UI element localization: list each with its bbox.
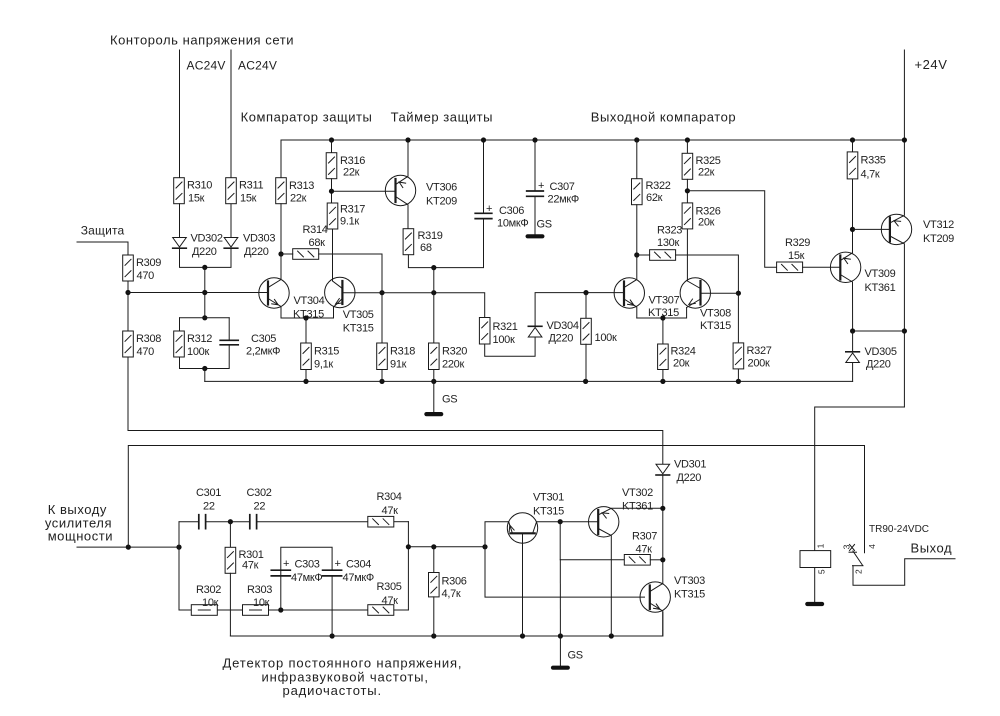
ground GS C307	[526, 234, 545, 238]
svg-text:Компаратор защиты: Компаратор защиты	[241, 110, 373, 125]
wire: R306 top lead	[433, 547, 435, 573]
wire: C303 bottom lead	[280, 576, 282, 610]
svg-text:1: 1	[816, 543, 826, 548]
wire: R325 top lead	[686, 140, 688, 153]
wire: R308 down to DC-detector line	[128, 357, 663, 464]
wire: node to rail segment	[559, 560, 561, 636]
wire: C306 top to bus	[483, 140, 485, 213]
svg-text:10мкФ: 10мкФ	[497, 218, 528, 230]
svg-text:KT315: KT315	[533, 506, 564, 518]
svg-text:R321: R321	[493, 321, 518, 333]
svg-text:R320: R320	[442, 346, 467, 358]
transistor VT305 KT315	[325, 277, 355, 307]
capacitor C303	[271, 570, 290, 576]
svg-text:R324: R324	[671, 346, 696, 358]
wire: R335 bottom to VT312 base node	[852, 179, 854, 229]
wire: R301 top lead	[229, 522, 231, 548]
junction VT312 base node	[850, 227, 855, 232]
svg-text:Д220: Д220	[244, 246, 269, 258]
svg-text:R312: R312	[187, 333, 212, 345]
svg-text:KT315: KT315	[674, 589, 705, 601]
svg-text:R322: R322	[646, 180, 671, 192]
wire: R322 bottom to node	[636, 205, 638, 255]
svg-text:20к: 20к	[673, 358, 690, 370]
wire: Защита lead	[77, 242, 128, 255]
wire: R325-R326 node	[686, 179, 688, 203]
wire: VT305 base from R317	[333, 230, 343, 289]
svg-text:R308: R308	[136, 333, 161, 345]
svg-text:VD302: VD302	[191, 232, 223, 244]
wire: R324 top lead	[662, 318, 664, 344]
junction R306 rail	[431, 633, 436, 638]
transistor VT304 KT315	[259, 278, 289, 308]
wire: R335 top lead	[852, 140, 854, 152]
resistor R310	[174, 178, 185, 204]
junction emitters R315	[303, 315, 308, 320]
capacitor C305	[220, 340, 238, 345]
resistor R335	[847, 152, 858, 179]
transistor VT302 KT361	[589, 507, 619, 537]
wire: VT301 emitter slant	[509, 522, 513, 533]
junction bus R322	[634, 137, 639, 142]
wire: R315 top lead	[305, 318, 307, 343]
svg-text:R309: R309	[136, 257, 161, 269]
wire: VT302 collector down to rail	[598, 529, 611, 637]
svg-text:VD303: VD303	[243, 232, 275, 244]
resistor 100k	[581, 318, 592, 344]
wire: R305 right lead	[394, 609, 408, 611]
wire: 100k bottom lead	[585, 344, 587, 381]
arrow VT312 emitter	[893, 219, 901, 226]
arrow VT307 emitter	[628, 300, 636, 308]
junction input column	[176, 545, 181, 550]
resistor R319	[403, 229, 414, 255]
svg-text:R325: R325	[696, 155, 721, 167]
svg-text:47к: 47к	[382, 505, 399, 517]
wire: C304 bottom to rail	[331, 576, 333, 636]
svg-text:R307: R307	[632, 531, 657, 543]
svg-text:22: 22	[254, 501, 266, 513]
wire: VT303 collector	[650, 584, 663, 592]
capacitor C307	[527, 191, 544, 196]
svg-text:47к: 47к	[242, 560, 259, 572]
resistor R317	[327, 203, 338, 229]
wire: VT312 collector down	[890, 236, 905, 407]
wire: R329 to VT309 base	[803, 266, 841, 268]
wire: R314 right lead to R318 column	[319, 254, 382, 343]
resistor R322	[632, 179, 643, 205]
svg-text:VT312: VT312	[923, 219, 954, 231]
junction bus C307	[532, 137, 537, 142]
svg-text:R314: R314	[303, 224, 328, 236]
transistor VT309 KT361	[830, 252, 860, 282]
wire: R302-R303 link	[218, 609, 243, 611]
svg-text:R305: R305	[377, 581, 402, 593]
svg-text:R311: R311	[239, 180, 263, 192]
svg-text:10к: 10к	[253, 597, 270, 609]
junction VT301 emitter column	[482, 544, 487, 549]
svg-text:2: 2	[853, 569, 863, 574]
transistor VT308 KT315	[680, 278, 710, 308]
svg-text:C307: C307	[550, 181, 575, 193]
svg-text:R327: R327	[747, 345, 772, 357]
wire: VT309 collector down	[840, 275, 852, 332]
wire: C303-C304 top link	[281, 547, 332, 576]
svg-text:R313: R313	[289, 180, 314, 192]
svg-text:15к: 15к	[240, 193, 257, 205]
wire: VT308 emitter	[687, 299, 701, 308]
junction R306 top	[431, 544, 436, 549]
svg-text:C305: C305	[251, 333, 276, 345]
svg-text:VT301: VT301	[533, 492, 564, 504]
wire: R304 right lead	[394, 521, 408, 523]
arrow VT306 emitter	[398, 180, 406, 188]
junction relay feed branch	[126, 545, 131, 550]
wire: R319 bottom to C306 column	[408, 219, 483, 268]
wire: VT307 collector	[624, 255, 637, 288]
svg-text:Контороль напряжения сети: Контороль напряжения сети	[110, 33, 294, 48]
resistor R327	[733, 343, 744, 369]
svg-text:GS: GS	[442, 394, 457, 406]
wire: AC24V feed 1	[179, 50, 181, 178]
svg-text:470: 470	[137, 270, 155, 282]
wire: VT304 base line	[128, 292, 268, 294]
resistor R325	[682, 153, 693, 179]
arrow VT304 emitter	[272, 299, 280, 307]
wire: VD305 cathode stub	[852, 331, 854, 352]
resistor R315	[301, 343, 312, 370]
svg-text:C304: C304	[346, 559, 371, 571]
svg-text:47к: 47к	[382, 595, 399, 607]
resistor R316	[326, 153, 337, 179]
svg-text:KT361: KT361	[865, 282, 896, 294]
wire: R313 to collector node	[280, 204, 282, 254]
wire: VT306 collector to R319	[396, 197, 409, 229]
wire: rail ground stub low	[559, 636, 561, 666]
junction VT302 collector rail	[609, 633, 614, 638]
wire: C301-C302 link	[206, 521, 250, 523]
resistor R329	[777, 262, 803, 273]
wire: 100k top lead	[585, 293, 587, 319]
wire: R312/C305 top link	[180, 317, 230, 319]
wire: VT312 base line	[853, 228, 890, 230]
svg-text:R323: R323	[657, 225, 682, 237]
wire: contact to output	[853, 559, 955, 586]
wire: VD302 cathode down	[180, 248, 232, 267]
wire: VT306 emitter to bus	[396, 140, 409, 185]
svg-text:VT306: VT306	[426, 182, 457, 194]
svg-text:62к: 62к	[646, 192, 663, 204]
svg-text:TR90-24VDC: TR90-24VDC	[869, 524, 929, 535]
resistor R305	[368, 605, 394, 616]
resistor R313	[276, 178, 287, 204]
svg-text:15к: 15к	[788, 250, 805, 262]
resistor R309	[123, 255, 134, 281]
arrow VT305 emitter	[334, 299, 342, 307]
junction C303 bottom	[278, 607, 283, 612]
relay coil TR90-24VDC	[800, 551, 831, 568]
svg-text:мощности: мощности	[48, 529, 113, 544]
resistor R306	[429, 573, 440, 597]
svg-text:91к: 91к	[390, 359, 407, 371]
wire: VT304 collector	[268, 254, 281, 288]
svg-text:10к: 10к	[202, 597, 219, 609]
resistor R301	[225, 547, 236, 573]
arrow VT308 emitter	[687, 299, 695, 307]
wire: R307 right lead	[650, 559, 663, 561]
resistor R318	[377, 343, 388, 370]
ground GS low	[551, 666, 570, 670]
wire: R309 to R308	[127, 281, 129, 331]
wire: R326 bottom to VT308 base	[687, 229, 700, 288]
svg-text:470: 470	[137, 346, 155, 358]
wire: R322 top lead	[636, 140, 638, 179]
svg-text:Защита: Защита	[81, 224, 125, 238]
resistor R324	[658, 344, 669, 370]
junction R329 branch	[685, 188, 690, 193]
junction bus C306	[481, 137, 486, 142]
junction diodes common	[202, 265, 207, 270]
svg-text:22к: 22к	[343, 167, 360, 179]
junction VT308 collector	[736, 291, 741, 296]
svg-text:R329: R329	[785, 237, 810, 249]
wire: R316 top lead	[331, 140, 333, 153]
svg-text:Д220: Д220	[677, 472, 702, 484]
contact arm tick	[853, 565, 864, 567]
wire: R301 bottom through row to rail	[229, 573, 231, 636]
wire: R324 bottom lead	[662, 370, 664, 382]
wire: VT307 emitter	[624, 299, 637, 318]
svg-text:R303: R303	[247, 584, 272, 596]
wire: R316-R317 node	[331, 179, 333, 203]
wire: emitter join VT304-VT305	[281, 307, 334, 318]
svg-text:R317: R317	[340, 204, 365, 216]
svg-text:Выход: Выход	[911, 541, 953, 556]
junction VD305 link left	[850, 328, 855, 333]
resistor R326	[682, 203, 693, 229]
resistor R307	[624, 555, 650, 566]
junction R313/R314/VT304 collector	[278, 251, 283, 256]
wire: C307 to ground	[534, 196, 536, 234]
wire: VT301 emitter route to VT303 base	[485, 522, 645, 597]
wire: to VT302 base	[560, 521, 598, 523]
transistor VT307 KT315	[614, 278, 644, 308]
wire: VD304 cathode to VT307 base node	[535, 293, 624, 327]
wire: R302 left lead	[179, 609, 191, 611]
wire: VT309 emitter up	[840, 229, 852, 260]
svg-text:20к: 20к	[698, 217, 715, 229]
ground relay	[805, 602, 824, 606]
junction R324 on rail	[660, 379, 665, 384]
wire: branch up to relay contact line	[128, 446, 864, 553]
svg-text:KT315: KT315	[293, 309, 324, 321]
resistor R321	[479, 318, 490, 345]
svg-text:4,7к: 4,7к	[861, 169, 880, 181]
svg-text:Д220: Д220	[549, 333, 574, 345]
junction R315 on rail	[303, 379, 308, 384]
junction R318 on rail	[379, 379, 384, 384]
transistor VT312 KT209	[881, 214, 911, 244]
svg-text:200к: 200к	[748, 358, 770, 370]
wire: VT301 collector slant to VT302 base	[533, 522, 561, 534]
svg-text:C301: C301	[196, 487, 221, 499]
wire: C301 left lead	[179, 521, 199, 523]
wire: coil to ground	[814, 568, 816, 602]
junction R301 top	[228, 519, 233, 524]
svg-text:KT315: KT315	[343, 323, 374, 335]
wire: VT303 emitter	[650, 603, 663, 636]
arrow VT309 emitter	[843, 256, 851, 264]
wire: VT308 collector to R327 column	[701, 292, 739, 294]
junction bus R316	[329, 137, 334, 142]
junction 100k on rail	[583, 379, 588, 384]
wire: R306 bottom lead	[433, 597, 435, 636]
ground GS mid	[424, 412, 443, 416]
junction VD305 link right	[902, 328, 907, 333]
wire: R321 bottom to VD304 anode	[485, 337, 535, 356]
resistor R302	[191, 605, 217, 616]
junction VT302 base node	[558, 519, 563, 524]
svg-text:4: 4	[867, 544, 877, 549]
svg-text:220к: 220к	[442, 359, 464, 371]
svg-text:Д220: Д220	[866, 359, 891, 371]
svg-text:+: +	[335, 558, 341, 570]
svg-text:VD304: VD304	[547, 320, 579, 332]
svg-text:Выходной компаратор: Выходной компаратор	[591, 110, 736, 125]
svg-text:VT303: VT303	[674, 575, 705, 587]
junction bus R325	[685, 137, 690, 142]
wire: VD305 link	[853, 330, 905, 332]
svg-text:4,7к: 4,7к	[442, 588, 461, 600]
wire: R314 left lead	[281, 253, 293, 255]
junction VT306 base node	[329, 189, 334, 194]
svg-text:VD305: VD305	[865, 346, 897, 358]
wire: top +24V bus	[281, 140, 904, 178]
svg-text:R319: R319	[418, 230, 443, 242]
transistor VT303 KT315	[640, 582, 670, 612]
junction R322/R323/VT307	[634, 252, 639, 257]
diode VD303	[224, 238, 238, 249]
junction bus R335	[850, 137, 855, 142]
wire: branch to R306/VT301	[408, 546, 485, 548]
svg-text:KT209: KT209	[426, 196, 457, 208]
junction R307/VT303 collector	[660, 557, 665, 562]
wire: VT302 emitter to VD301 line	[598, 508, 663, 515]
junction bus VT306	[405, 137, 410, 142]
svg-text:AC24V: AC24V	[187, 59, 226, 73]
svg-text:C302: C302	[247, 487, 272, 499]
contact pivot tick	[849, 551, 857, 553]
svg-text:47мкФ: 47мкФ	[343, 572, 374, 584]
resistor R312	[174, 331, 185, 357]
junction R327 on rail	[736, 379, 741, 384]
svg-text:R335: R335	[861, 155, 886, 167]
svg-text:5: 5	[817, 569, 827, 574]
wire: VD305 anode to rail	[852, 363, 854, 382]
svg-text:22: 22	[203, 501, 215, 513]
svg-text:2,2мкФ: 2,2мкФ	[246, 346, 280, 358]
svg-text:9.1к: 9.1к	[340, 216, 359, 228]
wire: VT306 base line	[332, 190, 396, 192]
svg-text:R318: R318	[390, 346, 415, 358]
junction GS rail	[558, 633, 563, 638]
junction R320 column	[431, 290, 436, 295]
wire: R310 to VD302	[179, 204, 181, 237]
svg-text:R304: R304	[377, 491, 402, 503]
junction on VT304 base line	[202, 290, 207, 295]
wire: branch to R329	[687, 191, 776, 267]
svg-text:22мкФ: 22мкФ	[548, 194, 579, 206]
wire: VT301 base down to rail	[522, 533, 524, 636]
svg-text:R302: R302	[196, 584, 221, 596]
svg-text:100к: 100к	[595, 332, 617, 344]
wire: collector route to relay	[815, 407, 905, 551]
wire: R303 to R305 row	[269, 609, 368, 611]
svg-text:68: 68	[420, 242, 432, 254]
wire: R320 column	[433, 268, 435, 343]
svg-text:47к: 47к	[636, 544, 653, 556]
wire: C307 top to bus	[534, 140, 536, 191]
svg-text:100к: 100к	[493, 334, 515, 346]
wire: right column R304-R305	[407, 522, 409, 610]
resistor R320	[429, 343, 440, 370]
wire: AC24V feed 2	[230, 50, 232, 178]
diode VD301	[656, 464, 670, 475]
svg-text:GS: GS	[537, 219, 552, 231]
wire: R315 bottom lead	[305, 370, 307, 382]
svg-text:VT307: VT307	[649, 295, 680, 307]
junction bus corner	[902, 137, 907, 142]
arrow VT302 emitter	[601, 511, 609, 518]
svg-text:R306: R306	[442, 576, 467, 588]
wire: VD301 cathode down	[662, 476, 664, 584]
diode VD305	[846, 352, 860, 363]
wire: R312 top lead	[179, 318, 181, 331]
capacitor C301	[199, 515, 206, 529]
resistor R308	[123, 331, 134, 357]
resistor R323	[650, 250, 676, 261]
svg-text:VT308: VT308	[700, 308, 731, 320]
wire: down to ground rail	[204, 369, 206, 382]
wire: VT305 emitter	[334, 299, 343, 308]
wire: R323 right to R327 column	[676, 255, 739, 343]
svg-text:C303: C303	[295, 559, 320, 571]
svg-text:Таймер защиты: Таймер защиты	[391, 110, 493, 125]
wire: mid ground rail	[205, 380, 853, 382]
svg-text:9,1к: 9,1к	[314, 359, 333, 371]
junction R320 top	[431, 265, 436, 270]
capacitor C304	[323, 570, 342, 576]
svg-text:+: +	[486, 203, 492, 215]
wire: R311 to VD303	[230, 204, 232, 237]
wire: R320 bottom lead	[433, 370, 435, 382]
svg-text:100к: 100к	[187, 346, 209, 358]
wire: R323 left lead	[637, 254, 650, 256]
svg-text:Детектор постоянного напряжени: Детектор постоянного напряжения,	[223, 656, 463, 671]
resistor R311	[226, 178, 237, 204]
junction VT301 base rail	[520, 633, 525, 638]
svg-text:C306: C306	[499, 205, 524, 217]
svg-text:VT309: VT309	[865, 268, 896, 280]
wire: R318 bottom lead	[381, 370, 383, 382]
resistor R303	[243, 605, 269, 616]
resistor R314	[293, 249, 319, 260]
svg-text:+: +	[283, 558, 289, 570]
svg-text:VT302: VT302	[622, 487, 653, 499]
arrow VT303 emitter	[654, 604, 662, 612]
svg-text:R316: R316	[340, 155, 365, 167]
transistor VT306 KT209	[385, 175, 415, 205]
